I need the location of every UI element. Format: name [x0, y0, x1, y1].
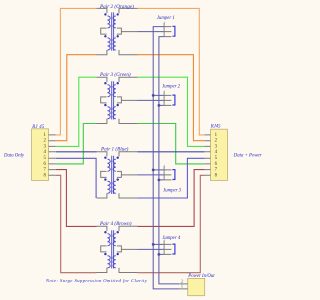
- svg-text:Pair 4 (Brown): Pair 4 (Brown): [99, 220, 132, 227]
- svg-text:RJ45: RJ45: [210, 125, 221, 130]
- svg-text:Pair 3 (Green): Pair 3 (Green): [99, 71, 131, 78]
- svg-text:Jumper 4: Jumper 4: [162, 236, 181, 241]
- svg-text:RJ 45: RJ 45: [31, 125, 45, 130]
- svg-text:Data Only: Data Only: [3, 153, 25, 158]
- svg-text:Pair 2 (Orange): Pair 2 (Orange): [99, 3, 134, 10]
- svg-text:Data + Power: Data + Power: [233, 154, 262, 159]
- svg-text:2: 2: [181, 280, 183, 284]
- svg-text:Jumper 1: Jumper 1: [157, 16, 175, 21]
- svg-text:Pair 1 (Blue): Pair 1 (Blue): [100, 146, 129, 153]
- svg-text:1: 1: [181, 285, 183, 289]
- svg-text:Jumper 3: Jumper 3: [163, 189, 182, 194]
- svg-text:Note: Surge Suppression Omitte: Note: Surge Suppression Omitted for Clar…: [45, 278, 148, 283]
- svg-text:Jumper 2: Jumper 2: [162, 85, 181, 90]
- svg-text:Power In/Out: Power In/Out: [187, 274, 215, 279]
